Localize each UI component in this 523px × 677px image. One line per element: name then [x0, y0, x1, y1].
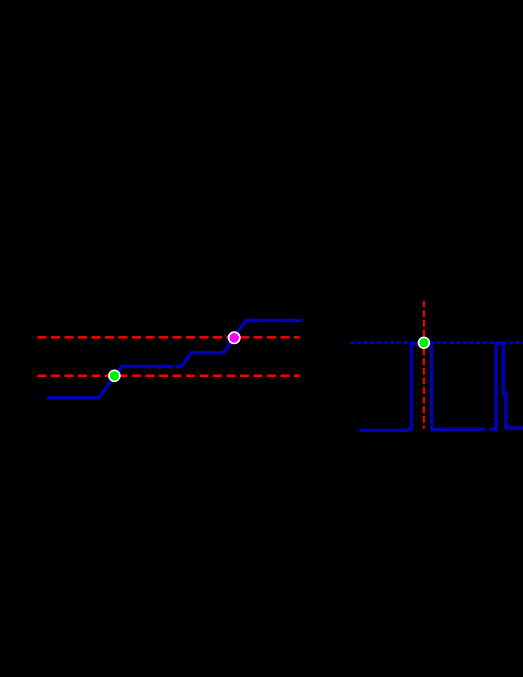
left plot: magenta crossing dot	[228, 331, 241, 344]
right plot: green crossing dot	[418, 337, 430, 349]
left plot: lower threshold (red dashed)	[38, 374, 300, 377]
left plot: blue staircase signal	[47, 320, 302, 397]
left plot: upper threshold (red dashed)	[38, 336, 300, 339]
right plot: blue pulse trace	[359, 344, 523, 431]
right plot: blue dotted threshold line	[351, 342, 523, 344]
left plot: green crossing dot	[108, 370, 121, 383]
right plot: red dashed vertical marker	[423, 301, 425, 429]
